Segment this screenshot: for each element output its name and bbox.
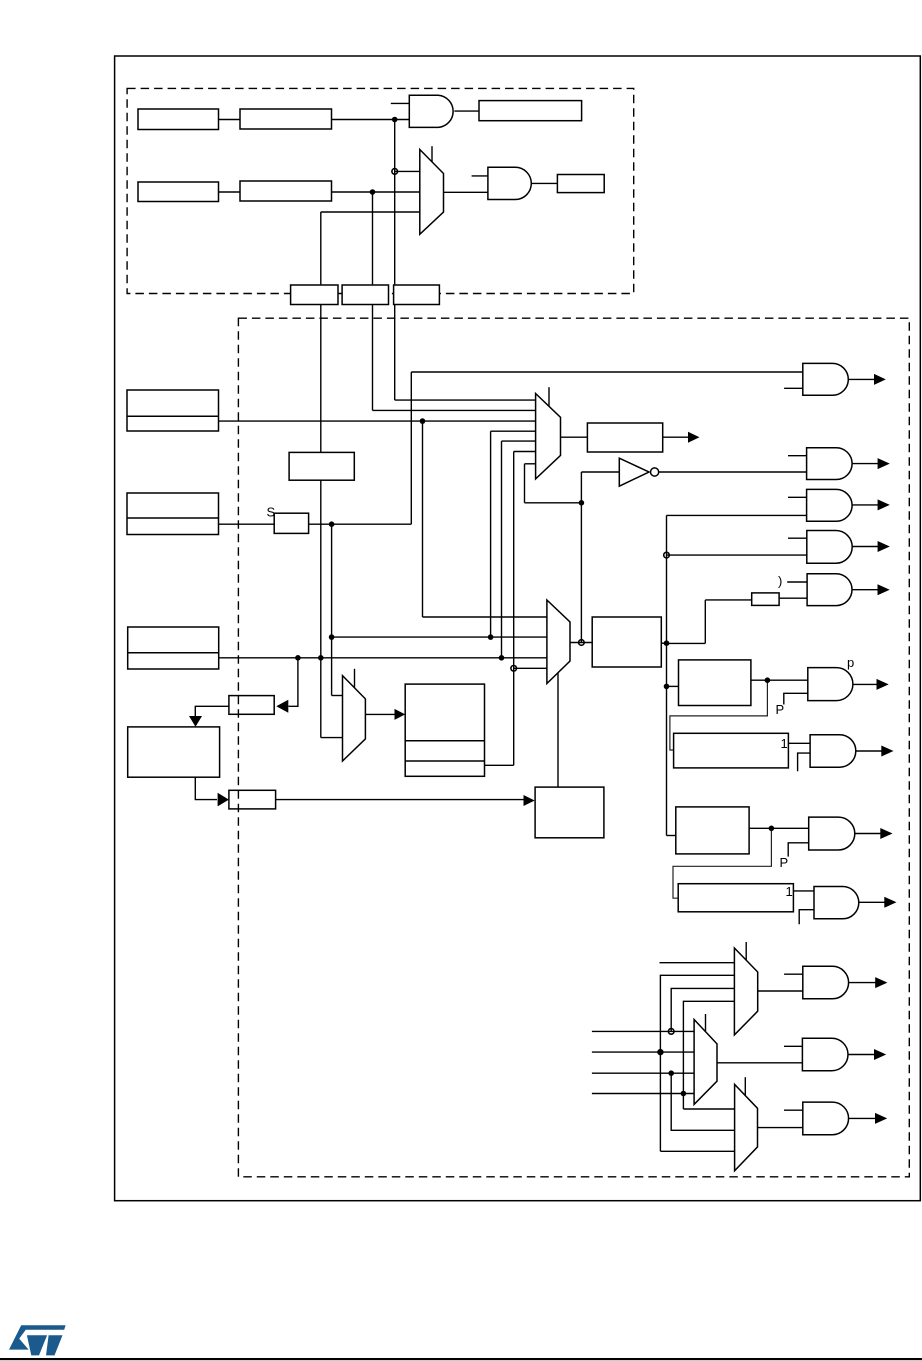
AND gate U1 bbox=[409, 95, 453, 127]
wire stub: AND R1 lower input bbox=[784, 387, 803, 389]
wire: horizontal y637 to mux M-Y input2 bbox=[332, 636, 547, 638]
AND gate R1 bbox=[803, 363, 849, 395]
wire: riser x671.2 line3 down to mux C input2 bbox=[671, 1073, 734, 1130]
wire: vertical x372.5 box B down to mux M-X input2 corner bbox=[372, 305, 374, 411]
wire: mux A input4 corner from riser x683.4 bbox=[683, 1001, 734, 1109]
wire: mux M-Z input1 horizontal bbox=[332, 695, 343, 697]
junction y658 x501.5 bbox=[499, 655, 505, 661]
wire: node A vertical x395 row1 down to box C bbox=[394, 120, 396, 285]
wire: box M4 output to node x666 bbox=[661, 642, 666, 644]
box M7 bbox=[676, 807, 749, 854]
svg-text:1: 1 bbox=[786, 884, 793, 899]
wire row1: box T1 to box T2 bbox=[219, 119, 241, 121]
wire stub: AND R4 upper input bbox=[788, 537, 807, 539]
arrow out AND R2 bbox=[878, 458, 890, 469]
box B2 bbox=[229, 790, 276, 809]
arrow into box B1 pointing left bbox=[276, 700, 288, 713]
wire: mux M-T select stub bbox=[431, 146, 433, 162]
junction box M7 output bbox=[769, 826, 775, 832]
wire: AND R9 output bbox=[859, 901, 885, 903]
box M6b bbox=[674, 733, 789, 768]
wire: box L2 output to S box bbox=[219, 523, 275, 525]
junction mux M-T input1 bbox=[392, 169, 398, 175]
wire: box L1 output y421 to mux M-X input3 bbox=[219, 420, 536, 422]
mux B bbox=[694, 1020, 717, 1105]
junction y502.8 x581.4 bbox=[579, 500, 585, 506]
mux A bbox=[734, 948, 757, 1035]
wire stub: AND R5 upper input after paren bbox=[787, 581, 807, 583]
wire: mux A input2 corner from riser x660.4 bbox=[660, 975, 734, 1151]
wire: mux M-Y output to box M4 bbox=[570, 642, 592, 644]
wire stub: AND U1 upper input bbox=[391, 102, 410, 104]
box B bbox=[342, 285, 388, 305]
junction box M6 output bbox=[765, 677, 771, 683]
box M3 divider2 bbox=[405, 760, 484, 762]
wire: long input line 1 bbox=[592, 1030, 694, 1032]
wire: riser x501.5 mux M-X input5 bbox=[501, 441, 503, 658]
wire: NOT gate output to AND R2 bbox=[659, 471, 807, 473]
wire: node y643 to riser x705.3 bbox=[667, 642, 706, 644]
wire: box L3 line branch down to box B1 bbox=[289, 658, 298, 707]
wire: vertical x372.5 row2 dot down to box B bbox=[372, 192, 374, 284]
box M2 bbox=[587, 423, 662, 452]
AND gate B3 bbox=[803, 1102, 849, 1135]
AND gate R6 bbox=[808, 668, 853, 701]
wire: riser x524.5 mux M-X input7 bbox=[524, 464, 526, 503]
wire: mux M-T input1 from node A bbox=[395, 170, 420, 172]
wire: AND U2 output to box T6 bbox=[531, 182, 557, 184]
box R5a bbox=[752, 593, 779, 606]
mux M-X bbox=[536, 394, 561, 479]
box A bbox=[291, 285, 338, 305]
wire: mux M-Z output to box M3 bbox=[365, 713, 395, 715]
wire: feedback path box M7 output to long box M7b input bbox=[673, 828, 771, 898]
wire: AND B2 output bbox=[848, 1054, 875, 1056]
wire: mux M-X input2 horizontal y410 bbox=[373, 409, 536, 411]
wire: net y554.8 from node x666 to AND R4 bbox=[667, 554, 807, 556]
mux M-Y bbox=[547, 600, 570, 684]
footer rule bbox=[0, 1358, 922, 1360]
AND gate R8 bbox=[809, 817, 855, 850]
junction line4 x683.4 bbox=[681, 1091, 687, 1097]
wire: feedback path box M6 output to long box M6b input bbox=[670, 680, 768, 750]
wire: horizontal y668.3 to mux M-Y input4 bbox=[514, 667, 547, 669]
AND gate R3 bbox=[807, 489, 853, 521]
box M7b bbox=[678, 884, 793, 912]
wire: mux A select stub bbox=[745, 942, 747, 960]
wire: mux M-X select stub bbox=[548, 387, 550, 407]
arrow out box M2 bbox=[688, 432, 700, 443]
page outer border frame bbox=[115, 56, 921, 1201]
wire: mux M-Z select stub bbox=[354, 669, 356, 689]
wire: P hook to AND R8 lower input bbox=[788, 843, 809, 857]
wire: vertical x320.8 box A down through M1 to L3 line bbox=[320, 305, 322, 453]
junction y637 x331.6 bbox=[329, 634, 335, 640]
wire: mux A input3 corner from riser x671.2 bbox=[671, 988, 734, 1031]
box M6 bbox=[679, 660, 751, 706]
wire: long line y371.5 to AND R1 bbox=[411, 371, 803, 373]
arrow out AND R8 bbox=[880, 828, 892, 839]
wire: AND R3 output bbox=[852, 504, 879, 506]
wire: mux B select stub bbox=[705, 1014, 707, 1031]
junction line3 x671.2 bbox=[668, 1070, 674, 1076]
wire: box M7 output to AND R8 bbox=[749, 827, 809, 829]
junction mux M-Y output bbox=[579, 640, 585, 646]
wire: riser x705.3 up to box R5a bbox=[704, 600, 706, 644]
wire: long input line 2 bbox=[592, 1051, 694, 1053]
wire: box M6 output to AND R6 bbox=[751, 679, 808, 681]
wire: AND R4 output bbox=[852, 546, 878, 548]
wire: mux M-Y select line down to box M-DS bbox=[557, 673, 559, 787]
mux M-Z bbox=[343, 676, 366, 761]
junction row1 x395 bbox=[392, 117, 398, 123]
arrow into box M3 bbox=[395, 709, 406, 720]
wire: box B2 output long line to box M-DS bbox=[276, 799, 524, 801]
wire: vertical x320.8 L3 line down to mux M-Z input2 bbox=[320, 658, 322, 738]
junction net y554.8 bbox=[664, 552, 670, 558]
wire: P hook to AND R6 lower input bbox=[784, 693, 808, 704]
junction y637 x490.6 bbox=[488, 634, 494, 640]
box M-DS bbox=[535, 787, 604, 838]
wire: mux M-T output to AND U2 bbox=[444, 191, 488, 193]
wire: vertical x394.7 box C down to mux M-X input1 corner bbox=[394, 305, 396, 400]
dashed container: main section bbox=[238, 318, 909, 1177]
wire row1: box T2 to AND U1 bbox=[332, 119, 410, 121]
arrow into box M-DS bbox=[524, 795, 535, 806]
arrow out AND R4 bbox=[878, 541, 890, 552]
junction L1 line x422.5 bbox=[420, 418, 426, 424]
box T5 bbox=[240, 181, 332, 201]
box L1 divider bbox=[127, 415, 219, 417]
wire stub: AND B1 upper input bbox=[784, 973, 803, 975]
box L3 bbox=[128, 627, 219, 669]
wire: node x666 into box M7 input bbox=[667, 835, 676, 837]
ST logo left wing with swoosh blade bbox=[9, 1325, 66, 1349]
box L1 bbox=[127, 390, 219, 431]
wire: node x666 to box M6 input bbox=[667, 685, 679, 687]
wire: vertical distribution net x666.2 bbox=[666, 515, 668, 835]
wire: NOT gate input horizontal bbox=[581, 471, 619, 473]
wire: box M7b to AND R9 upper input bbox=[793, 890, 814, 892]
wire: box R5a to AND R5 lower input bbox=[779, 597, 807, 599]
wire: mux M-X output to box M2 bbox=[561, 436, 588, 438]
wire: box B1 to corner to box L4 bbox=[195, 706, 229, 721]
wire: AND R5 output bbox=[852, 589, 879, 591]
arrow out AND R7 bbox=[881, 746, 893, 757]
box L2 divider bbox=[127, 517, 219, 519]
arrow out AND R5 bbox=[878, 584, 890, 595]
arrow out AND B3 bbox=[875, 1113, 887, 1124]
wire: AND B3 output bbox=[849, 1117, 876, 1119]
AND gate R5 bbox=[807, 574, 852, 606]
box T2 bbox=[240, 109, 332, 129]
wire stub: AND U2 upper input bbox=[472, 175, 488, 177]
wire: vertical x581.4 NOT input down to mux M-Y output node bbox=[580, 472, 582, 643]
junction box M6 input bbox=[664, 684, 670, 690]
arrow out AND B1 bbox=[875, 977, 887, 988]
wire: box L3 output y658 to mux M-Y input3 bbox=[219, 657, 547, 659]
box B1 bbox=[229, 696, 274, 715]
box M3 divider1 bbox=[405, 740, 484, 742]
AND gate R7 bbox=[810, 735, 856, 768]
wire: mux C output to AND B3 bbox=[758, 1127, 803, 1129]
wire: AND R7 output bbox=[856, 750, 882, 752]
box M4 bbox=[592, 617, 661, 667]
AND gate U2 bbox=[488, 167, 531, 199]
ST logo S lower trapezoid bbox=[27, 1335, 47, 1355]
box T1 bbox=[138, 109, 219, 130]
junction line1 x671.2 bbox=[668, 1029, 674, 1035]
junction line2 x660.4 bbox=[657, 1049, 663, 1055]
wire: box L4 bottom to corner to box B2 bbox=[195, 777, 217, 799]
wire stub: AND B2 upper input bbox=[784, 1045, 802, 1047]
wire: mux A bare input line y962.7 bbox=[660, 962, 735, 964]
arrow into box B2 pointing right bbox=[218, 793, 229, 807]
dashed container: oscillator section bbox=[127, 88, 634, 293]
wire: riser x513.7 mux M-X input6 down to box M3 output bbox=[513, 452, 515, 766]
wire stub: AND R3 upper input bbox=[788, 496, 807, 498]
box T4 bbox=[138, 182, 219, 202]
svg-text:P: P bbox=[776, 702, 785, 717]
wire row2: box T5 to mux M-T bbox=[332, 191, 420, 193]
svg-text:1: 1 bbox=[781, 736, 788, 751]
ST logo T stroke bbox=[46, 1335, 63, 1355]
junction row2 x372.5 bbox=[370, 189, 376, 195]
wire: AND U1 output to box T3 bbox=[454, 110, 479, 112]
AND gate R4 bbox=[807, 531, 852, 564]
wire: hook to AND R7 lower input bbox=[798, 753, 811, 771]
arrow out AND R3 bbox=[878, 499, 890, 510]
wire: AND R2 output bbox=[852, 463, 879, 465]
mux C bbox=[735, 1084, 758, 1170]
wire row2: box T4 to box T5 bbox=[219, 191, 241, 193]
wire: hook to AND R9 lower input bbox=[799, 910, 814, 925]
wire: box M2 output to arrow bbox=[663, 436, 689, 438]
junction S box output bbox=[329, 521, 335, 527]
arrow out AND R6 bbox=[877, 679, 889, 690]
junction box M4 output bbox=[664, 640, 670, 646]
wire: riser x411.3 up to y371.5 bbox=[410, 372, 412, 524]
junction L3 line x297.9 bbox=[295, 655, 301, 661]
wire: long input line 4 bbox=[592, 1093, 694, 1095]
wire: box M6b to AND R7 upper input bbox=[788, 742, 810, 744]
box T3 bbox=[479, 101, 582, 121]
box L2 bbox=[127, 493, 219, 535]
wire: mux B output to AND B2 bbox=[717, 1062, 802, 1064]
arrow into box L4 pointing down bbox=[189, 716, 202, 727]
wire: vertical x331.6 from S line down to mux M-Z input1 corner bbox=[331, 524, 333, 695]
NOT gate N1 triangle bbox=[619, 458, 649, 486]
wire: box M3 output horizontal y765.3 bbox=[485, 764, 514, 766]
arrow out AND R9 bbox=[884, 897, 896, 908]
box M1 bbox=[289, 452, 354, 480]
wire: horizontal y502.8 to node x581.4 bbox=[525, 502, 582, 504]
wire stub: AND B3 upper input bbox=[784, 1109, 803, 1111]
box L3 divider bbox=[128, 652, 219, 654]
box L4 bbox=[128, 727, 220, 777]
wire: AND R6 output bbox=[853, 683, 878, 685]
svg-text:): ) bbox=[778, 574, 782, 589]
svg-text:S: S bbox=[267, 505, 276, 520]
junction y668 x513.7 bbox=[511, 666, 517, 672]
wire: mux M-T input3 horizontal y212 bbox=[321, 211, 420, 213]
wire: S box output y524 to riser x411 bbox=[309, 523, 412, 525]
wire stub: AND R2 upper input bbox=[788, 455, 807, 457]
junction L3 line x320.8 bbox=[318, 655, 324, 661]
box C bbox=[394, 285, 440, 305]
wire: mux M-Y input1 horizontal y617 bbox=[423, 616, 547, 618]
wire: mux C select stub bbox=[744, 1077, 746, 1095]
wire: AND B1 output bbox=[849, 982, 876, 984]
wire: AND R8 output bbox=[855, 833, 881, 835]
box S1 bbox=[274, 513, 308, 533]
NOT gate N1 bubble bbox=[651, 468, 659, 476]
arrow out AND B2 bbox=[874, 1049, 886, 1060]
AND gate B2 bbox=[802, 1038, 848, 1071]
svg-text:P: P bbox=[780, 855, 789, 870]
wire: mux M-X input1 horizontal y400 bbox=[395, 399, 536, 401]
arrow out AND R1 bbox=[874, 374, 886, 385]
AND gate R2 bbox=[807, 448, 853, 480]
wire: vertical x422.5 from L1 line down to mux M-Y input1 corner bbox=[422, 421, 424, 617]
wire: AND R1 output bbox=[848, 378, 875, 380]
AND gate R9 bbox=[814, 887, 859, 919]
AND gate B1 bbox=[803, 966, 849, 999]
wire: long input line 3 bbox=[592, 1072, 694, 1074]
wire: mux M-Z input2 horizontal bbox=[321, 737, 343, 739]
box M3 bbox=[405, 684, 484, 776]
wire: vertical x320.8 y212 to box A bbox=[320, 212, 322, 284]
wire: mux C input1 horizontal bbox=[683, 1108, 734, 1110]
svg-text:p: p bbox=[847, 655, 854, 670]
wire: riser x490.6 mux M-X input4 bbox=[490, 431, 492, 637]
wire: mux C input3 horizontal bbox=[660, 1150, 734, 1152]
mux M-T bbox=[420, 150, 444, 235]
wire: mux A output to AND B1 bbox=[758, 990, 803, 992]
box T6 bbox=[557, 175, 604, 193]
wire: net y513.2 from node x666 to AND R3 bbox=[667, 514, 807, 516]
